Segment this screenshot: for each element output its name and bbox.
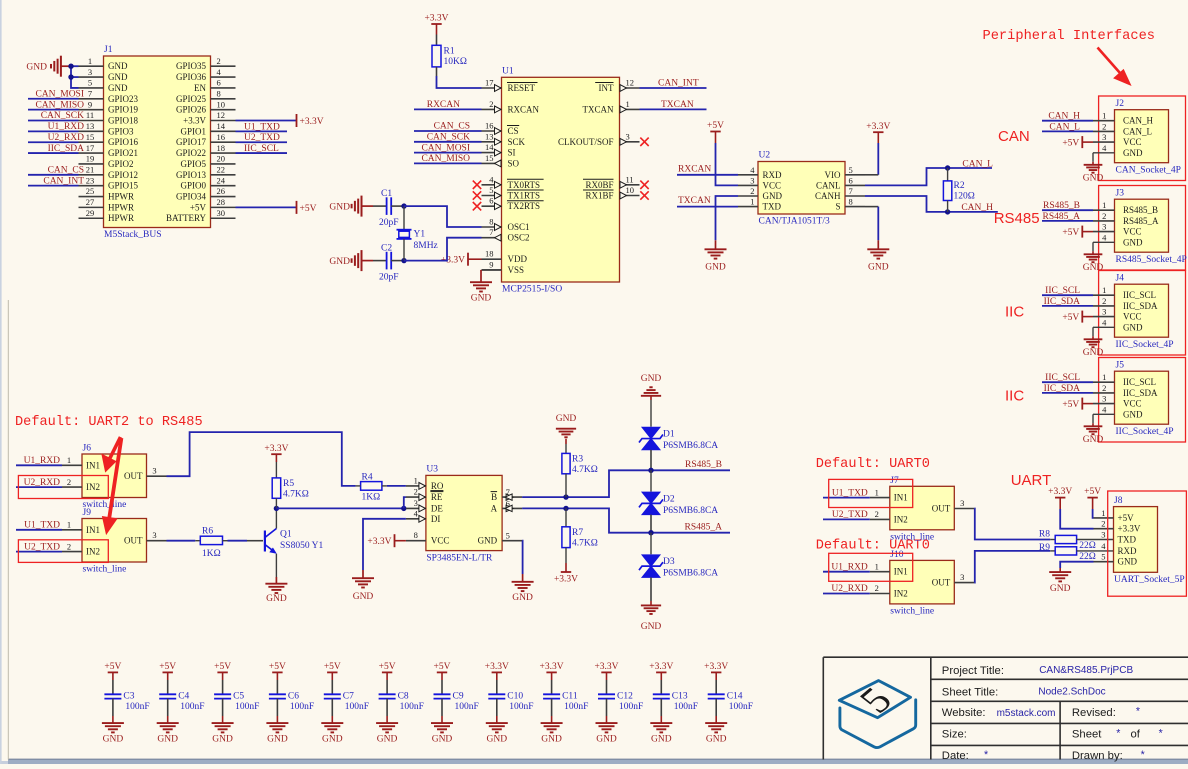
- power +5V at J2 VCC: [1081, 136, 1083, 148]
- ground below D3: [650, 577, 652, 601]
- svg-text:1: 1: [626, 99, 630, 109]
- svg-text:GND: GND: [1083, 173, 1104, 183]
- svg-text:VCC: VCC: [1123, 137, 1142, 147]
- svg-text:5: 5: [489, 185, 493, 195]
- svg-text:Node2.SchDoc: Node2.SchDoc: [1038, 687, 1105, 698]
- J1 pin 15 GPIO16: [79, 141, 104, 143]
- svg-text:TX1RTS: TX1RTS: [508, 191, 540, 201]
- capacitor C12 100nF: [606, 680, 608, 694]
- svg-text:3: 3: [750, 175, 754, 185]
- J2 pin 3 VCC: [1093, 141, 1115, 143]
- svg-text:C14: C14: [727, 692, 743, 702]
- connector J5 body: [1115, 371, 1169, 424]
- svg-text:SCK: SCK: [508, 137, 526, 147]
- svg-text:R3: R3: [572, 455, 583, 465]
- svg-text:5: 5: [506, 531, 510, 541]
- wire net CAN_L to J2: [1042, 130, 1093, 132]
- svg-text:C6: C6: [288, 692, 299, 702]
- J1 pin 3 GND: [79, 76, 104, 78]
- svg-text:30: 30: [217, 208, 226, 218]
- svg-text:RX1BF: RX1BF: [585, 191, 613, 201]
- J1 pin 18 GPIO22: [211, 152, 236, 154]
- wire R6 to Q1 base: [228, 540, 248, 542]
- svg-text:R8: R8: [1039, 530, 1050, 540]
- no-connect X on U1 pin 5: [473, 191, 481, 199]
- svg-text:RS485_Socket_4P: RS485_Socket_4P: [1116, 255, 1187, 265]
- svg-text:RXCAN: RXCAN: [508, 104, 540, 114]
- svg-text:RXD: RXD: [1118, 546, 1138, 556]
- power +3.3V above C12: [601, 671, 611, 673]
- svg-text:IIC_SCL: IIC_SCL: [244, 144, 279, 154]
- wire net IIC_SDA to J1 pin 17: [28, 152, 79, 154]
- svg-text:11: 11: [626, 174, 634, 184]
- capacitor C13 100nF: [660, 680, 662, 694]
- U2 pin 6 CANL: [845, 184, 865, 186]
- J4 pin 3 VCC: [1093, 316, 1115, 318]
- J6 pin 1 U1_RXD: [62, 464, 82, 466]
- svg-text:GND: GND: [705, 263, 726, 273]
- svg-text:20pF: 20pF: [379, 218, 399, 228]
- svg-text:GND: GND: [487, 735, 508, 745]
- svg-text:14: 14: [217, 121, 226, 131]
- svg-text:RE: RE: [431, 492, 443, 502]
- switch J7 body: [890, 486, 955, 530]
- svg-text:9: 9: [489, 259, 493, 269]
- svg-text:J6: J6: [83, 444, 92, 454]
- connector J4 body: [1115, 284, 1169, 337]
- svg-text:C11: C11: [562, 692, 578, 702]
- J1 pin 20 GPIO5: [211, 163, 236, 165]
- ground GND at J1 pins 1,3,5: [61, 65, 71, 67]
- J1 pin 28 +5V: [211, 206, 236, 208]
- svg-text:GND: GND: [1083, 435, 1104, 445]
- resistor R4 1K: [361, 482, 382, 491]
- J8 pin 2 +3.3V: [1094, 528, 1114, 530]
- ground at U2 pin2: [716, 196, 739, 240]
- connector J1 M5Stack_BUS body: [104, 56, 211, 228]
- svg-text:VCC: VCC: [763, 180, 782, 190]
- junction D2/D3 RS485_A: [648, 530, 653, 535]
- svg-text:1KΩ: 1KΩ: [202, 549, 221, 559]
- svg-text:VCC: VCC: [1123, 399, 1142, 409]
- capacitor C10 100nF: [496, 680, 498, 694]
- svg-text:CAN/TJA1051T/3: CAN/TJA1051T/3: [759, 217, 831, 227]
- svg-text:IIC_SCL: IIC_SCL: [1123, 377, 1156, 387]
- svg-text:U1_TXD: U1_TXD: [24, 521, 60, 531]
- J1 pin 6 EN: [211, 87, 236, 89]
- svg-text:Q1: Q1: [280, 530, 292, 540]
- svg-text:4.7KΩ: 4.7KΩ: [572, 538, 598, 548]
- wire J9 OUT to R6: [167, 540, 196, 542]
- svg-text:13: 13: [86, 121, 95, 131]
- svg-text:CAN_H: CAN_H: [1123, 116, 1154, 126]
- svg-text:IIC_SDA: IIC_SDA: [1123, 301, 1158, 311]
- svg-text:8MHz: 8MHz: [414, 241, 438, 251]
- ground below C13: [660, 716, 662, 723]
- svg-text:m5stack.com: m5stack.com: [997, 708, 1056, 719]
- junction U3 DE node: [401, 506, 406, 511]
- U3 pin 3 DE: [406, 507, 426, 509]
- svg-text:4: 4: [1102, 143, 1107, 153]
- wire J10 OUT to R9: [974, 551, 1050, 583]
- svg-text:+3.3V: +3.3V: [540, 662, 564, 672]
- svg-text:27: 27: [86, 197, 95, 207]
- svg-text:GPIO21: GPIO21: [108, 148, 138, 158]
- J5 pin 2 IIC_SDA: [1093, 392, 1115, 394]
- svg-text:A: A: [491, 503, 498, 513]
- wire net U2_TXD: [16, 551, 62, 553]
- J1 pin 9 GPIO19: [79, 109, 104, 111]
- resistor R3 4.7K: [565, 444, 567, 453]
- resistor R5 4.7K: [275, 462, 277, 478]
- svg-text:GND: GND: [1123, 322, 1143, 332]
- svg-text:CAN_Socket_4P: CAN_Socket_4P: [1116, 166, 1181, 176]
- svg-text:3: 3: [414, 498, 418, 508]
- svg-text:1: 1: [875, 487, 879, 497]
- svg-text:100nF: 100nF: [345, 702, 369, 712]
- svg-text:5: 5: [849, 165, 853, 175]
- svg-text:1: 1: [1101, 508, 1105, 518]
- svg-text:5: 5: [88, 78, 92, 88]
- J1 pin 21 GPIO12: [79, 174, 104, 176]
- capacitor C8 100nF: [386, 680, 388, 694]
- wire net TXCAN to U2 pin1: [677, 206, 738, 208]
- svg-text:15: 15: [86, 132, 95, 142]
- power +3.3V at U2 VIO: [873, 131, 883, 133]
- capacitor C6 100nF: [276, 680, 278, 694]
- svg-text:J7: J7: [890, 476, 899, 486]
- svg-text:OUT: OUT: [932, 504, 951, 514]
- svg-text:+3.3V: +3.3V: [1118, 524, 1141, 534]
- power +5V at J1 pin 28: [296, 201, 298, 214]
- svg-text:1: 1: [1102, 285, 1106, 295]
- wire net U2_TXD from J1 pin 16: [236, 141, 288, 143]
- J8 pin 5 GND: [1094, 561, 1114, 563]
- svg-text:OUT: OUT: [124, 471, 143, 481]
- svg-text:28: 28: [217, 197, 226, 207]
- svg-text:14: 14: [485, 142, 494, 152]
- switch J6 body: [82, 454, 147, 498]
- svg-text:+3.3V: +3.3V: [485, 662, 509, 672]
- U1 pin 3 CLKOUT/SOF: [620, 141, 640, 143]
- svg-text:CANH: CANH: [815, 191, 841, 201]
- svg-text:J3: J3: [1116, 188, 1125, 198]
- capacitor C2 20pF: [373, 260, 387, 262]
- U2 pin 7 CANH: [845, 195, 865, 197]
- svg-text:GND: GND: [353, 592, 374, 602]
- svg-text:TX0RTS: TX0RTS: [508, 180, 540, 190]
- svg-text:CAN_L: CAN_L: [962, 159, 993, 169]
- wire net IIC_SCL to J4: [1042, 294, 1093, 296]
- svg-text:R7: R7: [572, 528, 583, 538]
- wire +5V at J1 pin 28: [236, 206, 297, 208]
- J6 pin 3 OUT: [147, 475, 167, 477]
- svg-text:+5V: +5V: [190, 202, 207, 212]
- power +3.3V above C14: [711, 671, 721, 673]
- svg-text:+5V: +5V: [1084, 487, 1101, 497]
- svg-text:GPIO35: GPIO35: [176, 61, 207, 71]
- IC U3 SP3485 body: [426, 475, 502, 550]
- svg-text:GND: GND: [377, 735, 398, 745]
- wire R1 to U1 RESET: [437, 76, 482, 88]
- svg-text:+3.3V: +3.3V: [594, 662, 618, 672]
- svg-text:IN1: IN1: [894, 493, 908, 503]
- capacitor C1 20pF: [373, 205, 387, 207]
- J9 pin 1 U1_TXD: [62, 529, 82, 531]
- svg-text:SS8050 Y1: SS8050 Y1: [280, 541, 323, 551]
- svg-text:GPIO15: GPIO15: [108, 181, 139, 191]
- svg-text:CAN_INT: CAN_INT: [658, 79, 699, 89]
- svg-text:IIC_Socket_4P: IIC_Socket_4P: [1116, 427, 1174, 437]
- power +5V above C5: [217, 671, 227, 673]
- wire net U1_TXD: [823, 497, 870, 499]
- svg-text:3: 3: [626, 131, 630, 141]
- svg-text:6: 6: [849, 175, 853, 185]
- svg-text:CAN_INT: CAN_INT: [43, 176, 84, 186]
- U3 pin 7 B: [502, 496, 522, 498]
- wire net CAN_MOSI to J1 pin 7: [28, 98, 79, 100]
- svg-text:20: 20: [217, 154, 226, 164]
- svg-text:CAN_MISO: CAN_MISO: [35, 100, 84, 110]
- svg-text:2: 2: [750, 186, 754, 196]
- svg-text:R6: R6: [202, 527, 213, 537]
- svg-text:GPIO19: GPIO19: [108, 105, 139, 115]
- J3 pin 1 RS485_B: [1093, 209, 1115, 211]
- resistor R6 1K: [195, 540, 200, 542]
- wire U3 A to RS485_A: [522, 508, 730, 532]
- capacitor C3 100nF: [112, 680, 114, 694]
- J1 pin 29 HPWR: [79, 217, 104, 219]
- highlight box U2_RXD to J6 IN2: [18, 476, 108, 499]
- wire net TXCAN from U1 pin1: [640, 108, 707, 110]
- svg-text:GND: GND: [108, 61, 128, 71]
- svg-text:TXCAN: TXCAN: [661, 100, 694, 110]
- svg-text:RS485_B: RS485_B: [685, 460, 722, 470]
- J7 pin 2 U2_TXD: [870, 518, 890, 520]
- crystal Y1 8MHz: [403, 206, 405, 230]
- svg-text:2: 2: [1102, 296, 1106, 306]
- wire +3.3V at J1 pin 12: [236, 120, 297, 122]
- wire branch to U3 RE: [404, 497, 406, 508]
- U2 pin 2 GND: [738, 195, 758, 197]
- svg-text:3: 3: [1102, 307, 1106, 317]
- svg-text:1: 1: [1102, 372, 1106, 382]
- svg-text:+5V: +5V: [269, 662, 286, 672]
- svg-text:RXCAN: RXCAN: [427, 100, 460, 110]
- wire net U1_TXD: [16, 529, 62, 531]
- svg-text:4: 4: [1102, 317, 1107, 327]
- svg-text:25: 25: [86, 186, 95, 196]
- ground at U1 VSS: [482, 269, 502, 271]
- U2 pin 1 TXD: [738, 206, 758, 208]
- wire net IIC_SCL from J1 pin 18: [236, 152, 288, 154]
- J4 pin 2 IIC_SDA: [1093, 305, 1115, 307]
- J1 pin 4 GPIO36: [211, 76, 236, 78]
- svg-text:GPIO16: GPIO16: [108, 137, 139, 147]
- ground below C10: [496, 716, 498, 723]
- annotation arrow to peripheral connectors: [1098, 48, 1130, 84]
- power +5V at J3 VCC: [1081, 226, 1083, 238]
- svg-text:2: 2: [414, 487, 418, 497]
- U1 pin 12 INT: [620, 87, 640, 89]
- svg-text:+3.3V: +3.3V: [300, 117, 324, 127]
- svg-text:GPIO5: GPIO5: [180, 159, 206, 169]
- svg-text:100nF: 100nF: [290, 702, 314, 712]
- svg-text:RXCAN: RXCAN: [678, 164, 711, 174]
- svg-text:R5: R5: [283, 479, 294, 489]
- svg-text:UART_Socket_5P: UART_Socket_5P: [1114, 575, 1185, 585]
- svg-text:U3: U3: [426, 464, 438, 474]
- wire net CAN_MISO to J1 pin 9: [28, 109, 79, 111]
- svg-text:*: *: [1116, 728, 1120, 740]
- svg-text:C13: C13: [672, 692, 688, 702]
- svg-text:VSS: VSS: [508, 265, 525, 275]
- svg-text:3: 3: [152, 530, 156, 540]
- svg-text:RX0BF: RX0BF: [585, 180, 613, 190]
- ground below C8: [386, 716, 388, 723]
- svg-text:IN1: IN1: [86, 525, 100, 535]
- wire net CAN_MISO: [414, 162, 482, 164]
- svg-text:DI: DI: [431, 514, 441, 524]
- junction C2/OSC2: [401, 258, 406, 263]
- svg-text:J5: J5: [1116, 360, 1125, 370]
- svg-text:100nF: 100nF: [125, 702, 149, 712]
- power +3.3V at U3 VCC: [394, 534, 396, 547]
- svg-text:IIC_SCL: IIC_SCL: [1045, 373, 1080, 383]
- svg-text:20pF: 20pF: [379, 273, 399, 283]
- svg-text:VDD: VDD: [508, 254, 528, 264]
- wire net CAN_INT to J1 pin 23: [28, 185, 79, 187]
- svg-text:DE: DE: [431, 503, 443, 513]
- svg-text:UART: UART: [1011, 472, 1052, 489]
- annotation arrow to J9 IN1: [104, 438, 121, 531]
- peripheral group box J5: [1099, 358, 1186, 443]
- sheet bottom margin strip: [8, 760, 1188, 765]
- ground below DI: [352, 578, 374, 587]
- svg-text:GND: GND: [471, 294, 492, 304]
- svg-text:18: 18: [217, 143, 226, 153]
- svg-text:+3.3V: +3.3V: [424, 14, 448, 24]
- svg-text:+3.3V: +3.3V: [1048, 487, 1072, 497]
- U1 pin 17 RESET: [482, 87, 502, 89]
- svg-text:22: 22: [217, 165, 226, 175]
- svg-text:GND: GND: [512, 593, 533, 603]
- svg-text:GND: GND: [157, 735, 178, 745]
- wire R4 to U3 pin1: [387, 485, 406, 487]
- svg-text:U1_TXD: U1_TXD: [244, 122, 280, 132]
- svg-text:P6SMB6.8CA: P6SMB6.8CA: [663, 569, 718, 579]
- svg-text:GND: GND: [1083, 348, 1104, 358]
- svg-text:D2: D2: [663, 494, 675, 504]
- svg-text:100nF: 100nF: [180, 702, 204, 712]
- wire net CAN_SCK to J1 pin 11: [28, 120, 79, 122]
- svg-text:D1: D1: [663, 430, 675, 440]
- svg-text:CAN_H: CAN_H: [961, 203, 993, 213]
- U1 pin 18 VDD: [482, 258, 502, 260]
- connector J2 body: [1115, 110, 1169, 163]
- junction R7 / A line: [563, 506, 568, 511]
- U1 pin 7 OSC2: [482, 237, 502, 239]
- U1 pin 11 RX0BF: [620, 184, 640, 186]
- J1 pin 24 GPIO0: [211, 185, 236, 187]
- annotation arrow to J6 IN1: [104, 437, 121, 469]
- svg-text:6: 6: [217, 78, 221, 88]
- svg-text:1: 1: [750, 197, 754, 207]
- U1 pin 5 TX1RTS: [482, 195, 502, 197]
- wire net U2_RXD: [16, 486, 62, 488]
- svg-text:3: 3: [1101, 530, 1105, 540]
- svg-text:2: 2: [67, 477, 71, 487]
- power +5V at J5 VCC: [1081, 398, 1083, 410]
- svg-text:GND: GND: [1118, 557, 1138, 567]
- power +3.3V above C13: [656, 671, 666, 673]
- svg-text:GPIO23: GPIO23: [108, 94, 139, 104]
- ground below U3 pin5: [512, 582, 534, 591]
- power +3.3V above R1: [431, 23, 441, 25]
- svg-text:HPWR: HPWR: [108, 213, 134, 223]
- svg-text:IIC_SDA: IIC_SDA: [1044, 384, 1081, 394]
- svg-text:U2_TXD: U2_TXD: [244, 133, 280, 143]
- svg-text:CAN_MISO: CAN_MISO: [421, 154, 470, 164]
- svg-text:C4: C4: [178, 692, 189, 702]
- svg-text:+3.3V: +3.3V: [367, 537, 391, 547]
- svg-text:GND: GND: [641, 622, 662, 632]
- power +3.3V above C10: [492, 671, 502, 673]
- svg-text:1: 1: [67, 455, 71, 465]
- svg-text:Drawn by:: Drawn by:: [1072, 750, 1123, 762]
- M5Stack logo: [839, 681, 915, 748]
- J1 pin 10 GPIO26: [211, 109, 236, 111]
- U1 pin 16 CS: [482, 130, 502, 132]
- GND power symbol left of J1: [51, 56, 61, 77]
- svg-text:11: 11: [86, 110, 94, 120]
- J10 pin 2 U2_RXD: [870, 593, 890, 595]
- svg-text:D3: D3: [663, 557, 675, 567]
- ground below C14: [715, 716, 717, 723]
- svg-text:4.7KΩ: 4.7KΩ: [572, 465, 598, 475]
- svg-text:4: 4: [414, 508, 419, 518]
- svg-text:Sheet Title:: Sheet Title:: [942, 687, 999, 699]
- svg-text:+5V: +5V: [1062, 139, 1079, 149]
- IC U2 TJA1051 body: [758, 162, 845, 215]
- svg-text:GPIO22: GPIO22: [176, 148, 206, 158]
- peripheral group box J8 (UART): [1108, 491, 1187, 596]
- svg-text:CAN_CS: CAN_CS: [434, 122, 470, 132]
- svg-text:IIC: IIC: [1005, 388, 1024, 405]
- wire net U2_RXD to J1 pin 15: [28, 141, 79, 143]
- U3 pin 5 GND: [502, 540, 522, 542]
- svg-text:4: 4: [1102, 404, 1107, 414]
- J9 pin 3 OUT: [147, 540, 167, 542]
- U2 pin 3 VCC: [738, 184, 758, 186]
- svg-text:SI: SI: [508, 148, 516, 158]
- svg-text:22Ω: 22Ω: [1079, 541, 1096, 551]
- connector J8 UART socket body: [1114, 507, 1158, 573]
- junction at J1 pin1: [68, 63, 73, 68]
- sheet left edge strip: [0, 0, 2, 764]
- svg-text:GPIO17: GPIO17: [176, 137, 207, 147]
- power +5V above C8: [382, 671, 392, 673]
- no-connect X on U1 pin 11: [640, 181, 648, 189]
- svg-text:J1: J1: [104, 45, 113, 55]
- svg-text:R2: R2: [954, 181, 965, 191]
- svg-text:Peripheral Interfaces: Peripheral Interfaces: [983, 29, 1156, 44]
- svg-text:CAN&RS485.PrjPCB: CAN&RS485.PrjPCB: [1039, 665, 1133, 676]
- U2 pin 5 VIO: [845, 174, 865, 176]
- svg-text:U1_RXD: U1_RXD: [48, 122, 85, 132]
- svg-text:VCC: VCC: [1123, 312, 1142, 322]
- wire C1 junction to U1 OSC1: [404, 206, 482, 227]
